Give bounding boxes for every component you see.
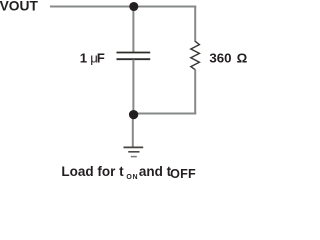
junction dot top: [129, 2, 138, 11]
ground bar 3: [131, 156, 137, 158]
wire top rail: [50, 6, 196, 8]
svg-text:VOUT: VOUT: [0, 0, 38, 14]
svg-text:1 μF: 1 μF: [80, 51, 105, 66]
wire capacitor bottom stub: [132, 60, 134, 114]
capacitor C 1uF bottom plate: [117, 58, 151, 60]
svg-text:Load for tON and tOFF: Load for tON and tOFF: [61, 164, 196, 181]
wire right vertical upper: [194, 6, 196, 43]
junction dot bottom: [129, 110, 138, 119]
wire right vertical lower: [194, 69, 196, 114]
ground bar 1: [124, 146, 144, 148]
resistor R 360 ohm zigzag: [191, 41, 200, 69]
wire capacitor top stub: [132, 7, 134, 53]
capacitor C 1uF top plate: [117, 52, 151, 54]
wire bottom rail: [133, 113, 196, 115]
ground bar 2: [128, 151, 139, 153]
wire ground stub: [132, 114, 134, 148]
svg-text:360Ω: 360Ω: [209, 51, 247, 66]
